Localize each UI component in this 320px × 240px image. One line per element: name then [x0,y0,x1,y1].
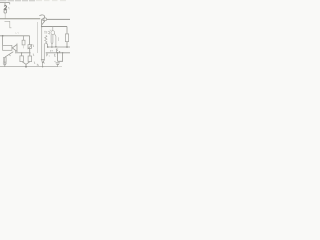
wire R1 R2 converge [22,62,30,65]
wire R7 to rail C [66,42,68,47]
node J11 [42,66,43,67]
wire rail B (upper right) [47,18,70,20]
battery B1 plate long [56,62,60,64]
wire ground rail [0,66,58,68]
terminal SRC1 [4,10,7,13]
transistor Q2 (circle) [52,27,54,31]
label "1/2Q" [44,31,50,34]
wire J1 to R3 [2,36,4,46]
wire rail E to R6 [23,36,25,40]
node J7 [66,46,68,48]
node O1 (circle terminal) [44,18,47,21]
label "+" [54,61,55,62]
capacitor C1 plate top [3,62,7,64]
capacitor C1 plate bottom [3,64,6,66]
node J8 [57,52,58,53]
wire stub to source SRC1 [4,3,6,6]
wire long drop x41.7 [41,27,43,60]
wire drop to R2 [29,53,31,56]
wire rail A (upper left) [0,18,40,20]
wire R4 lower lead [43,43,45,59]
trimmer RV1 arrow [28,44,33,49]
node J9 [62,52,63,53]
transistor Q3 base bar [41,58,45,60]
wire rail C [48,46,70,48]
wire Q3 to ground rail [42,63,44,66]
wire rail E corner drop [29,36,31,45]
label "e" [8,7,10,9]
wire tick rail F end [15,51,17,53]
label "E0" [56,49,60,53]
wire hook [9,3,11,5]
wire ground rail extension [58,66,62,68]
mark x near Q2 [50,30,51,31]
node J10 [25,66,27,68]
wire bracket stub [5,21,12,28]
wire battery B1 top lead [57,53,59,62]
resistor R7 [65,34,68,42]
cropped text row (top edge, left) [0,0,35,2]
node J3 [47,46,49,48]
transistor Q3 emitter converge [42,60,45,63]
resistor R6 [22,40,25,45]
node J4 [51,46,53,48]
labels faint smudges [15,32,53,66]
wire drop to R7 [66,27,68,34]
node J1 [2,35,4,37]
wire rail F (lower left) [16,52,31,54]
wire R6 lower lead [23,45,25,49]
arrowhead Q3 emitter [43,62,46,63]
battery B1 plate short [57,64,59,66]
resistor R5 (small box) [3,57,6,62]
tube V1 envelope arc [39,15,44,19]
node J6 [21,52,22,53]
transistor Q2 left leg [50,34,53,47]
mark faint stroke [58,37,60,41]
wire SRC1 to rail [4,13,6,19]
wire input top [0,2,10,4]
resistor R4 (zigzag) [45,35,47,43]
wire RV1 to rail F [29,48,31,52]
wire converge to ground rail [25,64,27,66]
wire R4 to rail C [45,43,47,47]
labels "R2 E" under rail D [46,54,55,57]
transistor Q1 (triangle) [12,44,17,51]
tube V1 emitter arrow [42,20,45,25]
resistor R2 [28,56,32,62]
wire Q1 collector stub [16,43,18,45]
trimmer RV1 box [28,45,31,49]
wire C1 to ground rail [4,65,6,67]
tube V1 cathode bar [41,19,43,26]
node J2 [41,26,43,28]
wire drop to R1 [21,53,23,56]
wire rail E (mid left) [0,35,30,37]
label "2" [4,6,7,9]
wire rail D (right) [46,52,70,54]
node J5 [55,46,57,48]
cropped text row (top edge, right) [36,0,66,2]
wire faint drop x37.4 [36,22,38,53]
transistor Q2 inner leg [51,35,54,45]
wire Q1 emitter diagonal [5,52,13,57]
resistor R1 [20,56,24,62]
transistor Q2 right leg [54,34,56,47]
wire corner to B1 [58,53,63,62]
wire emitter to C1 [4,57,6,63]
arrowhead Q1 emitter [9,55,10,56]
resistor R3 (base box) [3,45,12,50]
wire B1 to ground rail [57,65,59,67]
wire bus mid [42,26,67,28]
